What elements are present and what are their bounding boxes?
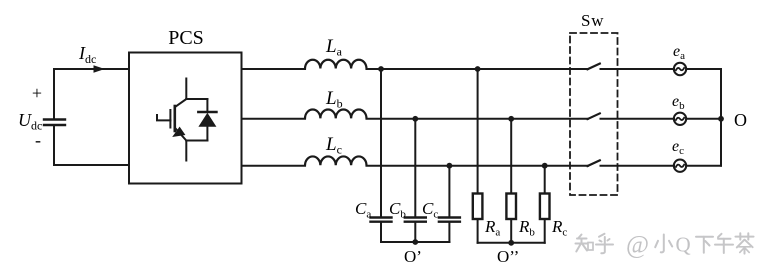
watermark char zhi xyxy=(576,235,594,252)
wire: O'' bottom bus xyxy=(478,242,545,244)
svg-text:Sw: Sw xyxy=(581,11,604,30)
wire: phase b switch to source eb xyxy=(601,118,675,120)
capacitor Cb plate bottom xyxy=(405,220,426,222)
wire: Ra to O'' bus xyxy=(477,219,479,243)
wire: Rc to O'' bus xyxy=(544,219,546,243)
wire: Cc to O' bus xyxy=(448,222,450,242)
wire: DC left vertical upper xyxy=(53,69,55,119)
inductor Lb xyxy=(305,110,367,119)
wire: Rb dropper from phase b xyxy=(510,119,512,194)
wire: phase a from inductor to switch xyxy=(367,68,589,70)
transistor Q1 emitter arrow xyxy=(172,127,185,137)
watermark zhihu @xiaoQ afternoon-tea xyxy=(576,233,754,253)
source ea sine xyxy=(676,68,684,70)
svg-text:PCS: PCS xyxy=(168,27,204,49)
capacitor Udc plate bottom xyxy=(44,124,65,126)
wire: Cb dropper from phase b xyxy=(414,119,416,218)
inductor Lc xyxy=(305,156,367,165)
diode D1 cathode bar xyxy=(198,111,216,114)
wire: O' bottom bus xyxy=(381,241,449,243)
wire: Rb to O'' bus xyxy=(510,219,512,243)
arrow Idc xyxy=(94,65,105,72)
svg-text:O’’: O’’ xyxy=(497,247,519,266)
watermark char xiao xyxy=(655,235,672,253)
source ec sine xyxy=(676,165,684,167)
switch Sa blade xyxy=(588,64,600,70)
capacitor Cc plate top xyxy=(439,216,460,218)
wire: DC left vertical lower xyxy=(53,126,55,166)
wire: right bus vertical (node O) xyxy=(720,69,722,166)
source eb sine xyxy=(676,118,684,120)
transistor Q1 body bar xyxy=(174,106,177,131)
node dot O bus xyxy=(718,116,724,122)
svg-text:+: + xyxy=(32,83,42,103)
wire: phase a switch to source ea xyxy=(601,68,675,70)
transistor Q1 gate lead xyxy=(157,115,170,120)
transistor Q1 collector diagonal xyxy=(175,99,186,107)
wire: phase b from inductor to switch xyxy=(367,118,589,120)
wire: Cc dropper from phase c xyxy=(448,166,450,218)
capacitor Cb plate top xyxy=(405,216,426,218)
wire: Ca dropper from phase a xyxy=(380,69,382,218)
wire: phase a from PCS to inductor xyxy=(242,68,306,70)
PCS box U1 xyxy=(129,53,242,184)
watermark char wu xyxy=(715,234,733,253)
wire: phase c from PCS to inductor xyxy=(242,165,306,167)
capacitor Cc plate bottom xyxy=(439,220,460,222)
node dot phase b / Rb xyxy=(508,116,514,122)
transistor Q1 bottom lead xyxy=(185,141,187,161)
switch Sb blade xyxy=(588,113,600,119)
watermark char cha xyxy=(736,233,754,253)
switch box Sw dashed xyxy=(570,33,618,195)
watermark char xia xyxy=(696,237,713,253)
svg-text:-: - xyxy=(35,130,41,150)
node dot O'' xyxy=(508,240,514,246)
wire: IGBT bottom horizontal from diode xyxy=(186,140,207,142)
wire: phase c source to right bus xyxy=(686,165,721,167)
inductor La xyxy=(305,60,367,69)
node dot phase c / Cc xyxy=(447,163,453,169)
resistor Rc box xyxy=(540,194,550,220)
wire: Ra dropper from phase a xyxy=(477,69,479,194)
watermark char hu xyxy=(596,234,613,253)
transistor Q1 IGBT top lead xyxy=(185,79,187,100)
source ea circle xyxy=(674,63,686,75)
wire: Ca to O' bus xyxy=(380,222,382,242)
capacitor Udc plate top xyxy=(44,118,65,120)
resistor Ra box xyxy=(473,194,483,220)
transistor Q1 gate bar xyxy=(169,110,171,128)
svg-text:Q: Q xyxy=(676,233,691,257)
node dot phase c / Rc xyxy=(542,163,548,169)
transistor Q1 emitter diagonal xyxy=(176,129,186,141)
wire: DC top from source to PCS xyxy=(54,68,129,70)
svg-text:O’: O’ xyxy=(404,247,422,266)
wire: DC bottom return to PCS xyxy=(54,164,129,166)
wire: phase b from PCS to inductor xyxy=(242,118,306,120)
switch Sc blade xyxy=(588,160,600,166)
wire: phase c from inductor to switch xyxy=(367,165,589,167)
capacitor Ca plate bottom xyxy=(371,220,392,222)
wire: Cb to O' bus xyxy=(414,222,416,242)
node dot phase a / Ra xyxy=(475,66,481,72)
wire: phase c switch to source ec xyxy=(601,165,675,167)
source ec circle xyxy=(674,160,686,172)
svg-text:O: O xyxy=(734,110,747,130)
capacitor Ca plate top xyxy=(371,216,392,218)
wire: IGBT top horizontal to diode xyxy=(186,98,207,100)
diode D1 bottom lead xyxy=(206,127,208,141)
svg-text:@: @ xyxy=(626,232,649,259)
node dot phase b / Cb xyxy=(412,116,418,122)
wire: phase b source to right bus xyxy=(686,118,721,120)
source eb circle xyxy=(674,113,686,125)
resistor Rb box xyxy=(506,194,516,220)
node dot O' xyxy=(412,239,418,245)
diode D1 triangle xyxy=(198,113,216,127)
node dot phase a / Ca xyxy=(378,66,384,72)
wire: Rc dropper from phase c xyxy=(544,166,546,194)
diode D1 top lead xyxy=(206,99,208,112)
wire: phase a source to right bus xyxy=(686,68,721,70)
